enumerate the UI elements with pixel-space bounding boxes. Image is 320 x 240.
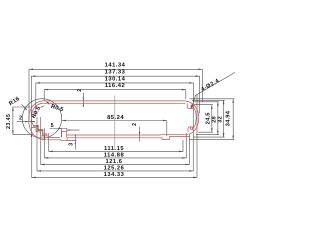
profile top skin inner <box>42 102 185 104</box>
hole bottom Ø2.4 <box>190 127 193 130</box>
wire dim line 2 top-skin <box>83 93 84 107</box>
svg-text:3: 3 <box>69 143 75 146</box>
svg-text:130.14: 130.14 <box>105 76 126 82</box>
svg-text:111.15: 111.15 <box>104 146 124 152</box>
wire leader R16 <box>22 104 28 110</box>
wire dim line 23.45 vertical <box>12 107 33 134</box>
wire dim line 130.14 <box>36 82 194 117</box>
svg-text:114.88: 114.88 <box>104 153 125 159</box>
svg-text:2: 2 <box>19 116 22 122</box>
wire dim line 116.42 <box>44 89 186 101</box>
svg-text:28: 28 <box>211 116 217 123</box>
wire leader 4-Ø2.4 <box>191 72 235 109</box>
wire dim line 5 <box>49 128 79 137</box>
wire leader R0.5 b <box>46 101 49 104</box>
wire dim line 34.94 vertical <box>189 99 234 140</box>
wire dim line 32 vertical <box>192 100 225 137</box>
svg-text:141.34: 141.34 <box>105 63 126 69</box>
svg-text:85.24: 85.24 <box>107 115 124 121</box>
profile bottom skin inner <box>47 134 188 137</box>
detail circle R16 <box>22 99 61 138</box>
svg-text:134.33: 134.33 <box>104 172 125 178</box>
svg-text:2: 2 <box>77 89 83 92</box>
wire dim line 24.5 vertical <box>192 105 213 133</box>
wire dim line 134.33 <box>32 95 197 178</box>
profile left cap steps <box>33 125 47 137</box>
svg-text:116.42: 116.42 <box>105 83 125 89</box>
profile left cap inner arc <box>31 103 42 125</box>
profile right cap outer arc <box>186 101 199 134</box>
profile right cap top hook <box>187 103 192 108</box>
left cap black step edge <box>33 126 47 135</box>
wire dim line 111.15 <box>49 133 183 152</box>
svg-text:121.6: 121.6 <box>105 159 122 165</box>
wire dim line 137.33 <box>31 75 199 137</box>
wire dim line 3 vertical <box>66 134 77 149</box>
centerline <box>114 96 116 151</box>
svg-text:125.26: 125.26 <box>104 166 125 172</box>
profile left slot hook <box>61 132 66 138</box>
wire dim line 141.34 <box>29 69 202 123</box>
profile right cap inner arc <box>191 106 196 129</box>
wire dim line 2 mid vertical <box>139 127 140 142</box>
profile left cap outer arc <box>29 101 46 140</box>
hole top Ø2.4 <box>191 106 194 109</box>
svg-text:2: 2 <box>132 123 138 126</box>
profile top skin outer <box>42 100 186 102</box>
profile right cap bottom hook <box>188 127 192 132</box>
svg-text:32: 32 <box>218 116 224 123</box>
wire dim line 114.88 <box>44 128 186 159</box>
svg-text:137.33: 137.33 <box>105 70 126 76</box>
wire leader R0.5 a <box>41 106 45 108</box>
profile bottom skin outer <box>47 137 191 141</box>
wire dim line 85.24 <box>62 120 167 137</box>
wire dim line 125.26 <box>37 104 193 172</box>
svg-text:34.94: 34.94 <box>226 110 232 126</box>
svg-text:23.45: 23.45 <box>6 114 12 130</box>
wire dim line 121.6 <box>41 117 190 165</box>
wire dim line 2 left <box>17 121 35 122</box>
wire dim line 28 vertical <box>195 102 219 135</box>
